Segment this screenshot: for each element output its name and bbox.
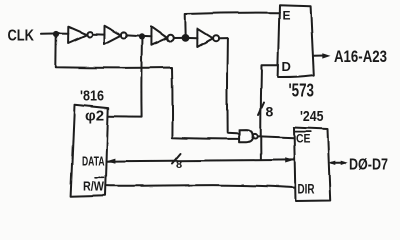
svg-text:CE: CE (296, 132, 311, 146)
svg-text:E: E (283, 9, 291, 23)
svg-text:R/W: R/W (83, 180, 104, 194)
svg-text:8: 8 (266, 104, 274, 120)
svg-text:'816: '816 (80, 89, 104, 105)
svg-text:DIR: DIR (298, 182, 315, 197)
svg-text:CLK: CLK (8, 28, 35, 45)
svg-text:'245: '245 (300, 109, 324, 125)
svg-text:D: D (282, 59, 291, 74)
svg-text:φ2: φ2 (85, 108, 104, 125)
svg-text:'573: '573 (289, 80, 315, 101)
svg-text:8: 8 (176, 159, 182, 171)
svg-text:DØ-D7: DØ-D7 (349, 157, 388, 174)
svg-text:DATA: DATA (82, 154, 105, 169)
svg-text:A16-A23: A16-A23 (334, 47, 387, 66)
